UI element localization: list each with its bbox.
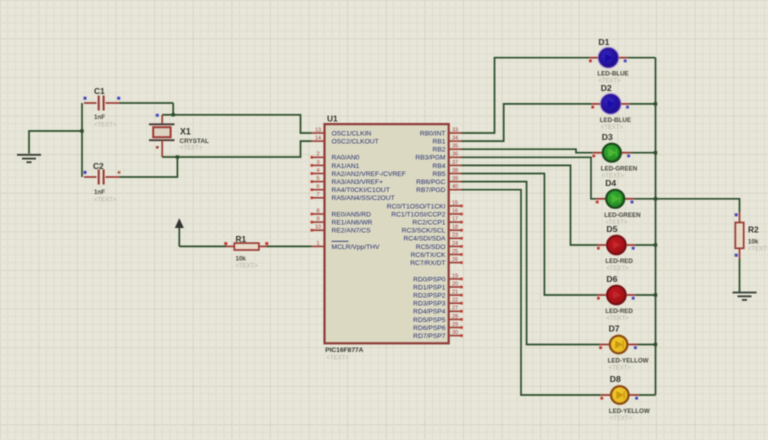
svg-text:RE0/AN5/RD: RE0/AN5/RD [332, 211, 372, 218]
svg-text:1: 1 [316, 241, 319, 247]
svg-text:3: 3 [316, 160, 319, 166]
svg-text:RB0/INT: RB0/INT [420, 130, 446, 137]
svg-text:D3: D3 [602, 132, 613, 142]
svg-text:RB2: RB2 [432, 147, 445, 154]
svg-text:D1: D1 [598, 37, 609, 47]
svg-text:15: 15 [452, 200, 458, 206]
svg-text:LED-RED: LED-RED [605, 308, 633, 315]
svg-text:10k: 10k [236, 255, 247, 262]
svg-text:23: 23 [452, 233, 458, 239]
svg-text:29: 29 [452, 322, 458, 328]
svg-text:RC4/SDI/SDA: RC4/SDI/SDA [404, 236, 447, 243]
svg-text:<TEXT>: <TEXT> [94, 123, 117, 129]
svg-text:LED-BLUE: LED-BLUE [600, 117, 631, 124]
svg-text:19: 19 [452, 273, 458, 279]
svg-text:18: 18 [452, 225, 458, 231]
svg-text:RD2/PSP2: RD2/PSP2 [413, 293, 446, 300]
svg-text:RC0/T1OSO/T1CKI: RC0/T1OSO/T1CKI [387, 203, 446, 210]
svg-text:28: 28 [452, 314, 458, 320]
svg-text:<TEXT>: <TEXT> [601, 125, 624, 131]
svg-text:4: 4 [316, 168, 319, 174]
svg-text:D2: D2 [601, 83, 612, 93]
svg-text:17: 17 [452, 217, 458, 223]
svg-text:OSC2/CLKOUT: OSC2/CLKOUT [332, 139, 379, 146]
svg-text:X1: X1 [180, 127, 191, 137]
svg-text:R1: R1 [236, 234, 247, 244]
svg-text:RB4: RB4 [432, 163, 445, 170]
svg-text:RD5/PSP5: RD5/PSP5 [413, 317, 446, 324]
svg-text:RD4/PSP4: RD4/PSP4 [413, 309, 446, 316]
svg-text:2: 2 [316, 152, 319, 158]
svg-text:RB5: RB5 [432, 171, 445, 178]
svg-text:20: 20 [452, 281, 458, 287]
svg-text:<TEXT>: <TEXT> [236, 264, 259, 270]
svg-text:C1: C1 [94, 86, 105, 96]
svg-text:R2: R2 [748, 225, 759, 235]
svg-text:22: 22 [452, 298, 458, 304]
svg-text:<TEXT>: <TEXT> [609, 366, 632, 372]
svg-text:U1: U1 [327, 114, 338, 124]
svg-text:16: 16 [452, 208, 458, 214]
svg-text:38: 38 [452, 168, 458, 174]
svg-text:RB7/PGD: RB7/PGD [416, 187, 446, 194]
svg-text:RB6/PGC: RB6/PGC [416, 179, 446, 186]
svg-text:14: 14 [315, 136, 321, 142]
svg-text:RA4/T0CKI/C1OUT: RA4/T0CKI/C1OUT [332, 187, 390, 194]
svg-text:RE2/AN7/CS: RE2/AN7/CS [332, 228, 372, 235]
svg-text:D7: D7 [609, 324, 620, 334]
svg-text:RE1/AN6/WR: RE1/AN6/WR [332, 220, 373, 227]
svg-text:RC3/SCK/SCL: RC3/SCK/SCL [402, 228, 446, 235]
svg-text:<TEXT>: <TEXT> [606, 266, 629, 272]
svg-text:RC1/T1OSI/CCP2: RC1/T1OSI/CCP2 [391, 211, 446, 218]
svg-text:CRYSTAL: CRYSTAL [180, 138, 210, 145]
svg-text:<TEXT>: <TEXT> [606, 316, 629, 322]
svg-text:C2: C2 [93, 161, 104, 171]
svg-text:RA5/AN4/SS/C2OUT: RA5/AN4/SS/C2OUT [332, 195, 395, 202]
svg-text:D8: D8 [610, 374, 621, 384]
svg-text:1nF: 1nF [94, 114, 105, 121]
svg-text:8: 8 [316, 208, 319, 214]
svg-text:<TEXT>: <TEXT> [748, 247, 768, 253]
svg-text:LED-GREEN: LED-GREEN [604, 212, 641, 219]
svg-text:MCLR/Vpp/THV: MCLR/Vpp/THV [332, 244, 380, 251]
svg-text:RA1/AN1: RA1/AN1 [332, 163, 360, 170]
svg-text:OSC1/CLKIN: OSC1/CLKIN [332, 130, 372, 137]
svg-text:9: 9 [316, 217, 319, 223]
svg-text:24: 24 [452, 241, 458, 247]
svg-text:RB1: RB1 [432, 139, 445, 146]
svg-text:25: 25 [452, 249, 458, 255]
svg-text:RD3/PSP3: RD3/PSP3 [413, 301, 446, 308]
svg-text:5: 5 [316, 176, 319, 182]
svg-text:D5: D5 [606, 224, 617, 234]
svg-text:26: 26 [452, 257, 458, 263]
svg-text:34: 34 [452, 136, 458, 142]
svg-text:LED-BLUE: LED-BLUE [597, 71, 628, 78]
svg-text:D4: D4 [605, 178, 616, 188]
svg-text:RD0/PSP0: RD0/PSP0 [413, 276, 446, 283]
svg-text:RC6/TX/CK: RC6/TX/CK [411, 252, 446, 259]
svg-text:RC7/RX/DT: RC7/RX/DT [410, 260, 445, 267]
svg-text:LED-GREEN: LED-GREEN [601, 166, 638, 173]
svg-text:1nF: 1nF [94, 189, 105, 196]
svg-text:PIC16F877A: PIC16F877A [325, 347, 363, 354]
svg-text:36: 36 [452, 152, 458, 158]
svg-text:37: 37 [452, 160, 458, 166]
svg-text:<TEXT>: <TEXT> [327, 356, 350, 362]
svg-text:RA3/AN3/VREF+: RA3/AN3/VREF+ [332, 179, 384, 186]
svg-text:40: 40 [452, 184, 458, 190]
svg-text:RD1/PSP1: RD1/PSP1 [413, 284, 446, 291]
svg-text:27: 27 [452, 306, 458, 312]
svg-text:35: 35 [452, 144, 458, 150]
svg-text:RA0/AN0: RA0/AN0 [332, 155, 360, 162]
svg-text:D6: D6 [606, 274, 617, 284]
svg-text:30: 30 [452, 330, 458, 336]
svg-text:LED-YELLOW: LED-YELLOW [609, 408, 650, 415]
svg-text:RD6/PSP6: RD6/PSP6 [413, 325, 446, 332]
svg-text:LED-YELLOW: LED-YELLOW [608, 358, 649, 365]
svg-text:<TEXT>: <TEXT> [610, 416, 633, 422]
svg-text:RC2/CCP1: RC2/CCP1 [412, 220, 445, 227]
svg-text:6: 6 [316, 184, 319, 190]
svg-text:RD7/PSP7: RD7/PSP7 [413, 333, 446, 340]
svg-text:10k: 10k [748, 239, 759, 246]
svg-text:39: 39 [452, 176, 458, 182]
svg-text:10: 10 [315, 225, 321, 231]
svg-text:RA2/AN2/VREF-/CVREF: RA2/AN2/VREF-/CVREF [332, 171, 406, 178]
svg-text:33: 33 [452, 127, 458, 133]
svg-text:RB3/PGM: RB3/PGM [415, 155, 446, 162]
svg-text:7: 7 [316, 192, 319, 198]
svg-text:21: 21 [452, 290, 458, 296]
svg-text:RC5/SDO: RC5/SDO [416, 244, 446, 251]
svg-text:<TEXT>: <TEXT> [94, 197, 117, 203]
svg-text:<TEXT>: <TEXT> [180, 146, 203, 152]
svg-text:LED-RED: LED-RED [605, 258, 633, 265]
svg-text:13: 13 [315, 127, 321, 133]
